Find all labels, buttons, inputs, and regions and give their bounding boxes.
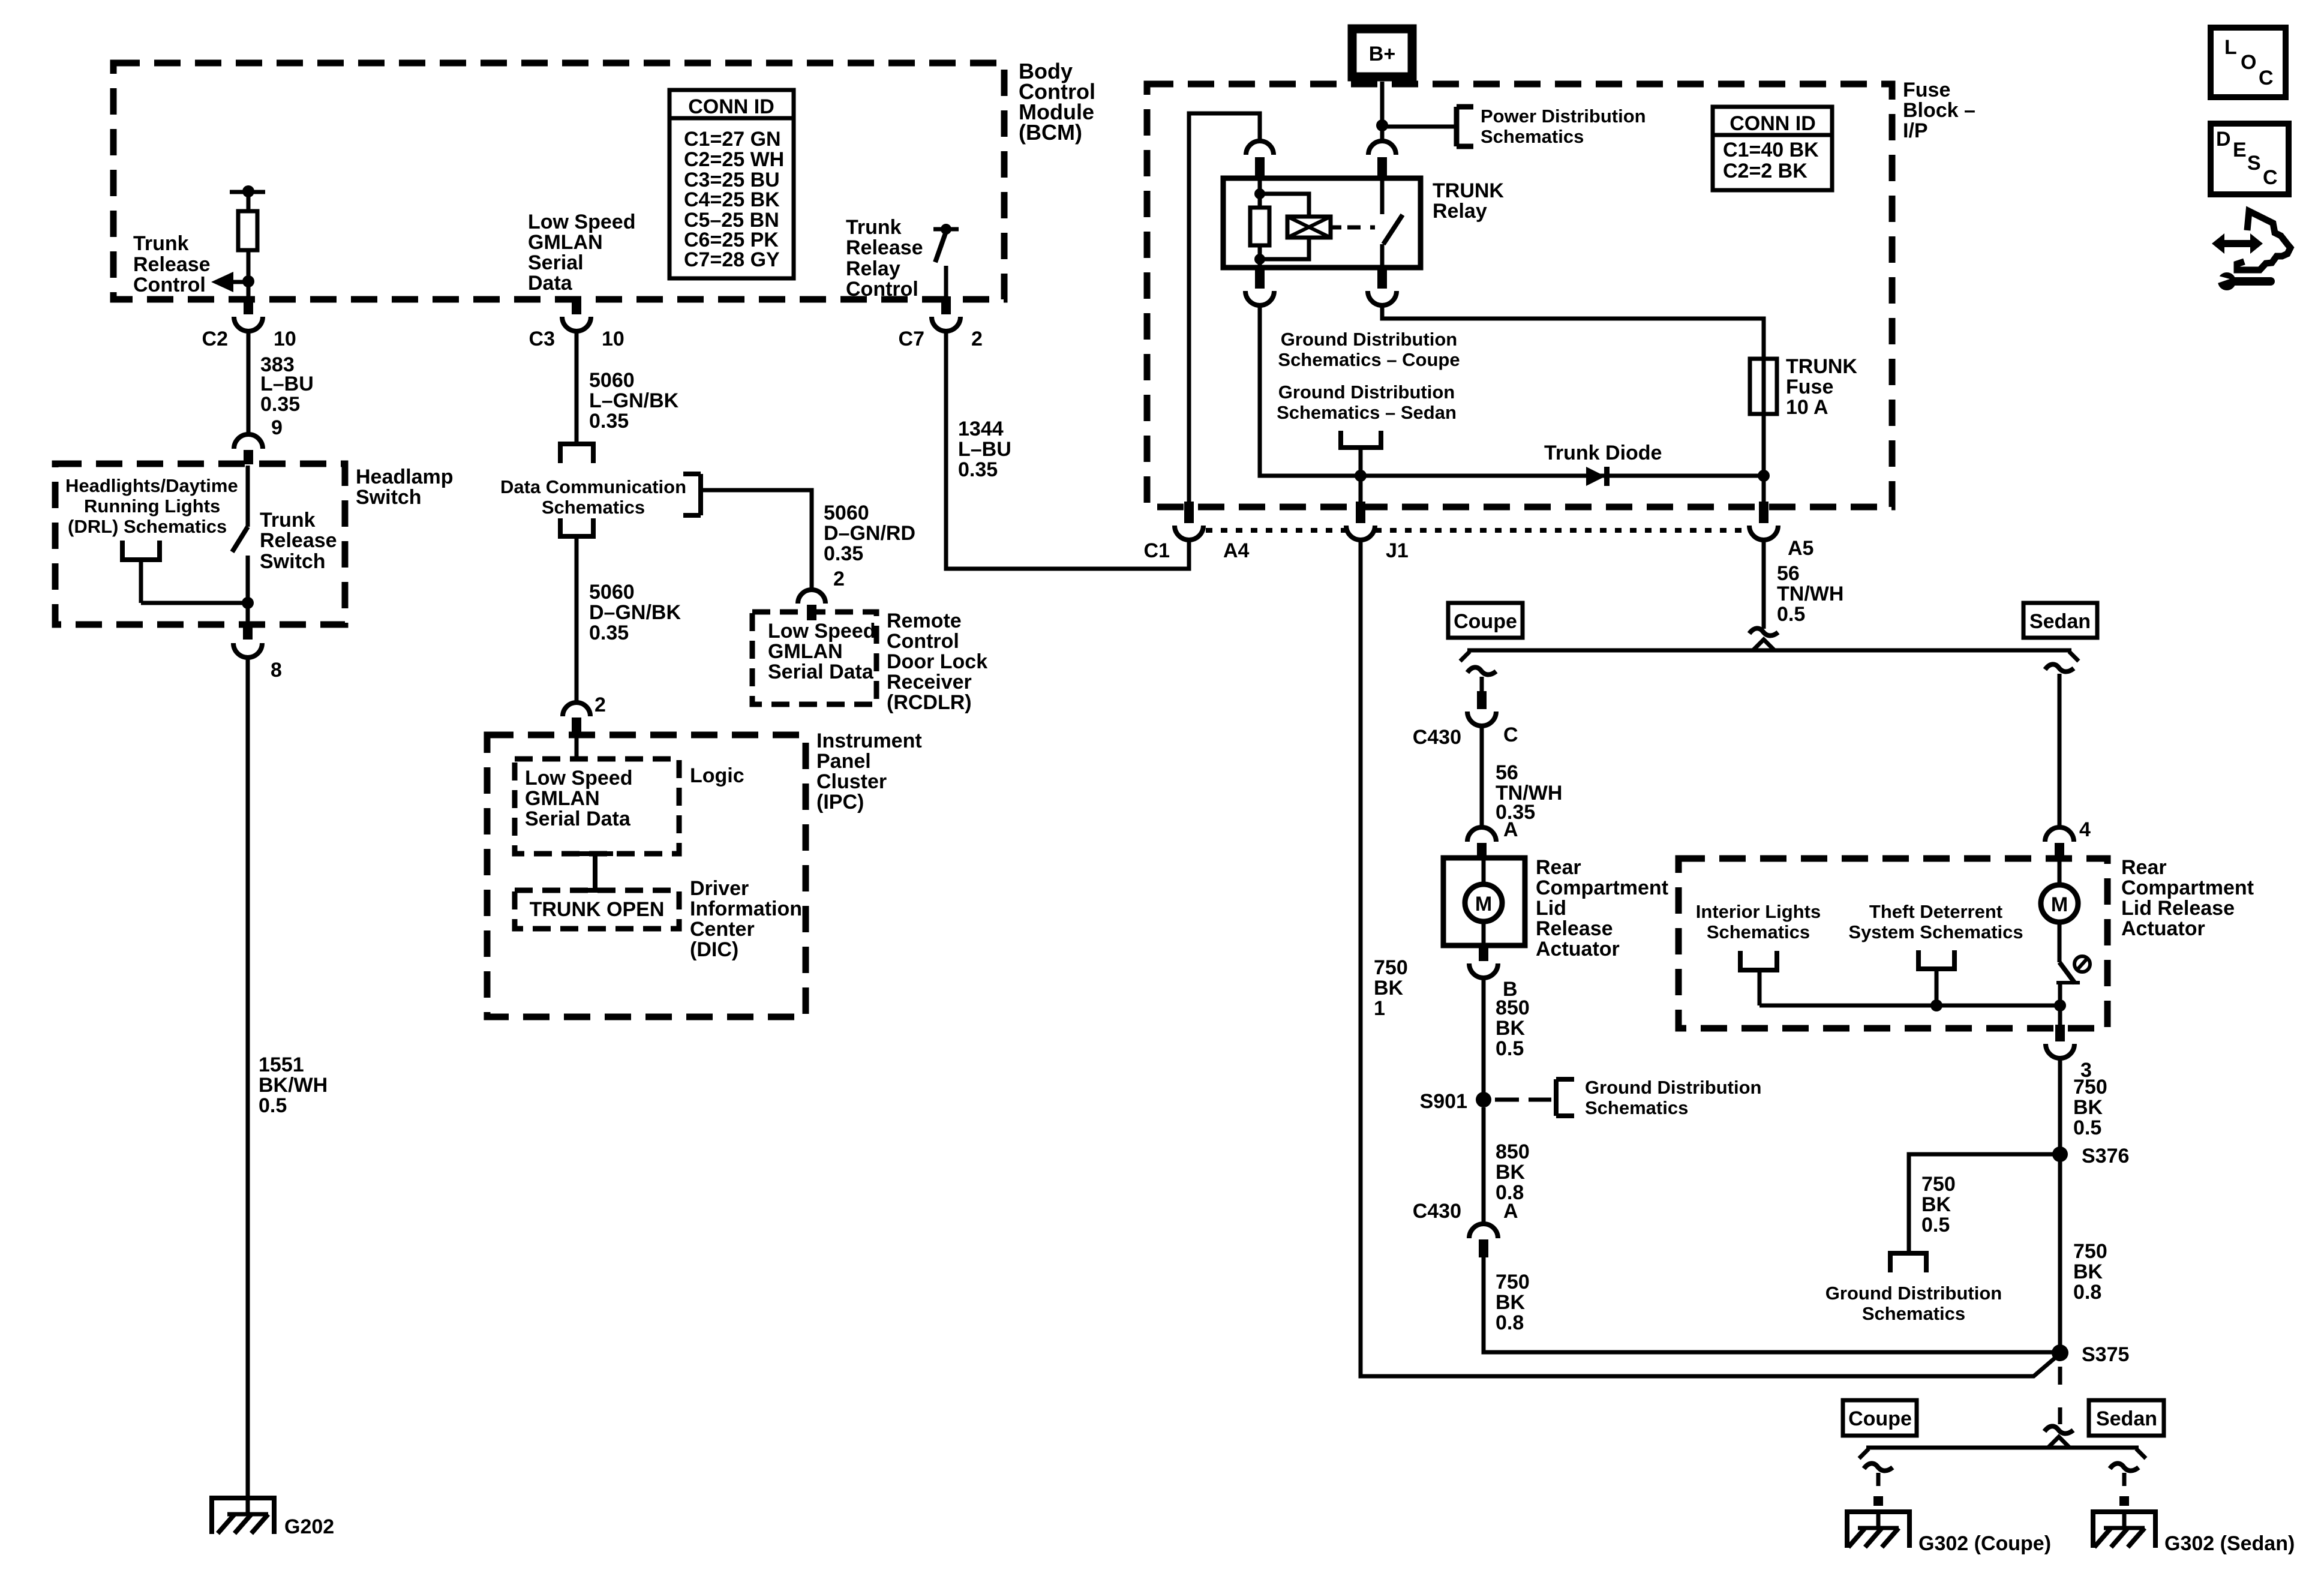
node: theft deterrent junction bbox=[1930, 999, 1942, 1011]
module box: Headlamp Switch dashed outline bbox=[55, 464, 345, 625]
value label: 850 BK 0.5 bbox=[1496, 996, 1530, 1060]
svg-text:C1=27 GN: C1=27 GN bbox=[684, 128, 781, 151]
wire: J1 ground wire down and across to S375 bbox=[1361, 540, 2055, 1376]
wire: coupe branch down to C430 pin C bbox=[1480, 677, 1484, 692]
node: coil bottom junction bbox=[1254, 254, 1265, 265]
connector line: fuse block C1 dotted boundary bbox=[1206, 528, 1749, 533]
label: Remote Control Door Lock Receiver (RCDLR) bbox=[887, 610, 987, 714]
svg-text:10: 10 bbox=[602, 328, 624, 350]
tag box: Sedan (bottom) bbox=[2089, 1400, 2164, 1436]
fuse: TRUNK Fuse 10 A bbox=[1750, 355, 1857, 419]
block: Logic dashed box bbox=[515, 759, 679, 854]
svg-text:A: A bbox=[1503, 1200, 1518, 1223]
svg-text:G202: G202 bbox=[284, 1515, 334, 1538]
node: B+ distribution junction bbox=[1376, 119, 1388, 131]
label: Driver Information Center (DIC) bbox=[690, 877, 802, 961]
motor: sedan lid release motor bbox=[2041, 858, 2078, 962]
svg-text:G302 (Coupe): G302 (Coupe) bbox=[1918, 1532, 2051, 1555]
svg-text:Data Communication: Data Communication bbox=[500, 476, 686, 497]
svg-text:850: 850 bbox=[1496, 996, 1530, 1019]
svg-text:Serial Data: Serial Data bbox=[525, 807, 631, 830]
svg-text:Door Lock: Door Lock bbox=[887, 650, 987, 673]
svg-text:BK: BK bbox=[1496, 1161, 1526, 1184]
label: Instrument Panel Cluster (IPC) bbox=[816, 730, 922, 813]
splice: S376 bbox=[2052, 1145, 2129, 1167]
break symbol: A5 wire interrupt bbox=[1749, 628, 1778, 635]
svg-text:Fuse: Fuse bbox=[1903, 79, 1950, 101]
svg-text:0.5: 0.5 bbox=[2073, 1116, 2101, 1139]
switch: sedan actuator position switch bbox=[2056, 956, 2090, 1005]
svg-text:Remote: Remote bbox=[887, 610, 962, 632]
wire: bottom coupe/sedan split rail bbox=[1859, 1437, 2146, 1458]
wire: relay coil ground side down to bus bbox=[1260, 305, 1761, 476]
wire: circuit 5060 from BCM C3-10 down bbox=[575, 331, 579, 443]
svg-text:A5: A5 bbox=[1788, 537, 1813, 560]
svg-text:Trunk Diode: Trunk Diode bbox=[1544, 442, 1662, 464]
module box: Instrument Panel Cluster dashed outline bbox=[487, 735, 806, 1017]
svg-text:BK: BK bbox=[1374, 977, 1404, 999]
svg-text:Sedan: Sedan bbox=[2096, 1407, 2157, 1430]
wire: parallel branch to relay coil bbox=[1260, 194, 1309, 217]
svg-text:L–BU: L–BU bbox=[260, 373, 314, 395]
svg-text:Low Speed: Low Speed bbox=[525, 767, 632, 789]
svg-text:Low Speed: Low Speed bbox=[528, 211, 635, 233]
label: Ground Distribution Schematics (S376 tap) bbox=[1825, 1283, 2002, 1324]
reference bracket: data communication schematics (right, to RCDLR) bbox=[683, 474, 701, 515]
connector: fuse block pin J1 bbox=[1346, 502, 1409, 562]
value label: 750 BK 0.5 (S376 tap) bbox=[1921, 1173, 1956, 1236]
label: Trunk Release Switch bbox=[260, 509, 337, 573]
tag box: Coupe (bottom) bbox=[1843, 1400, 1917, 1436]
reference bracket: interior lights schematics bbox=[1738, 951, 1779, 1005]
svg-text:S375: S375 bbox=[2082, 1343, 2129, 1366]
wire: junction down to A5 bbox=[1762, 476, 1766, 504]
value label: 750 BK 0.5 (sedan) bbox=[2073, 1076, 2107, 1139]
svg-text:8: 8 bbox=[271, 659, 282, 682]
svg-text:C: C bbox=[2259, 67, 2274, 89]
svg-text:Data: Data bbox=[528, 272, 573, 295]
tag box: Sedan (top) bbox=[2023, 603, 2097, 638]
svg-text:4: 4 bbox=[2079, 818, 2091, 841]
svg-text:Sedan: Sedan bbox=[2029, 610, 2091, 633]
resistor: trunk release control output driver bbox=[230, 185, 265, 281]
reference bracket: ground distribution schematics tap bbox=[1338, 431, 1383, 474]
coil: relay coil (boxed X) bbox=[1287, 217, 1341, 238]
table: CONN ID (BCM) bbox=[669, 90, 794, 278]
wire: relay switch output to TRUNK fuse bbox=[1382, 305, 1764, 359]
label: Low Speed GMLAN Serial Data (IPC logic) bbox=[525, 767, 632, 830]
svg-text:0.35: 0.35 bbox=[958, 458, 998, 481]
svg-text:Ground Distribution: Ground Distribution bbox=[1825, 1283, 2002, 1304]
break symbol: coupe branch interrupt bbox=[1467, 667, 1496, 674]
svg-text:Release: Release bbox=[846, 236, 923, 259]
node: switch output junction (sedan) bbox=[2054, 999, 2066, 1011]
svg-text:TRUNK: TRUNK bbox=[1786, 355, 1857, 378]
connector: IPC pin 2 bbox=[563, 703, 590, 737]
svg-text:2: 2 bbox=[594, 694, 606, 716]
wire: circuit 850 from pin B down to S901 bbox=[1482, 978, 1486, 1100]
connector: C430 pin C bbox=[1413, 691, 1518, 749]
module box: Fuse Block - I/P dashed outline bbox=[1147, 84, 1892, 507]
svg-text:0.35: 0.35 bbox=[589, 622, 629, 644]
wire: B+ feed down to relay node bbox=[1380, 82, 1385, 125]
label: Rear Compartment Lid Release Actuator (coupe) bbox=[1536, 856, 1668, 960]
svg-text:L–GN/BK: L–GN/BK bbox=[589, 389, 679, 412]
svg-text:C1=40 BK: C1=40 BK bbox=[1723, 139, 1819, 161]
svg-text:5060: 5060 bbox=[589, 581, 635, 604]
node: bus junction at J1 bbox=[1355, 470, 1367, 482]
wire: node down to relay pin 86 bbox=[1380, 127, 1385, 141]
svg-text:Control: Control bbox=[133, 274, 206, 296]
svg-text:750: 750 bbox=[2073, 1076, 2107, 1098]
svg-text:Low Speed: Low Speed bbox=[768, 620, 875, 643]
value label: 56 TN/WH 0.5 bbox=[1777, 562, 1843, 626]
label: Theft Deterrent System Schematics bbox=[1848, 901, 2023, 942]
connector: fuse block pin A4 bbox=[1144, 502, 1250, 562]
svg-text:Compartment: Compartment bbox=[2121, 876, 2254, 899]
svg-text:Actuator: Actuator bbox=[1536, 938, 1620, 960]
svg-text:C3: C3 bbox=[529, 328, 555, 350]
break symbol: sedan branch interrupt bbox=[2045, 664, 2074, 671]
svg-text:Switch: Switch bbox=[260, 550, 326, 573]
node: switch output junction bbox=[242, 597, 254, 609]
svg-text:G302 (Sedan): G302 (Sedan) bbox=[2164, 1532, 2295, 1555]
svg-text:I/P: I/P bbox=[1903, 119, 1928, 142]
svg-text:Schematics: Schematics bbox=[1707, 921, 1810, 942]
svg-text:Instrument: Instrument bbox=[816, 730, 922, 752]
svg-text:Relay: Relay bbox=[846, 257, 900, 280]
value label: 1551 BK/WH 0.5 bbox=[259, 1053, 328, 1117]
wire: circuit 750 from C430-A to S375 bbox=[1484, 1257, 2052, 1352]
svg-text:750: 750 bbox=[2073, 1240, 2107, 1263]
svg-text:10 A: 10 A bbox=[1786, 396, 1828, 419]
wire: coupe ground drop bbox=[1873, 1473, 1883, 1506]
svg-text:J1: J1 bbox=[1386, 539, 1409, 562]
label: Trunk Release Control bbox=[133, 232, 211, 296]
label: Headlamp Switch bbox=[356, 466, 454, 509]
connector: coupe actuator pin B bbox=[1469, 945, 1518, 1001]
svg-text:0.35: 0.35 bbox=[824, 542, 863, 565]
svg-text:C4=25 BK: C4=25 BK bbox=[684, 188, 780, 211]
svg-text:Release: Release bbox=[260, 529, 337, 552]
value label: 1344 L-BU 0.35 bbox=[958, 418, 1011, 481]
svg-text:C2=2 BK: C2=2 BK bbox=[1723, 160, 1807, 182]
wire: dashed ground wire below S375 bbox=[2058, 1367, 2062, 1424]
svg-text:S376: S376 bbox=[2082, 1145, 2129, 1167]
splice: S375 bbox=[2052, 1343, 2129, 1366]
value label: 850 BK 0.8 bbox=[1496, 1140, 1530, 1204]
svg-text:B+: B+ bbox=[1369, 43, 1395, 65]
svg-text:C: C bbox=[2263, 166, 2278, 189]
svg-text:D: D bbox=[2216, 128, 2231, 151]
reference bracket: data communication schematics (bottom) bbox=[558, 518, 596, 536]
svg-text:Schematics – Sedan: Schematics – Sedan bbox=[1277, 402, 1457, 423]
ground: G202 bbox=[209, 1498, 334, 1538]
wire: circuit 383 from BCM C2-10 down to headlamp switch pin 9 bbox=[247, 331, 251, 436]
label: Ground Distribution Schematics (S901) bbox=[1585, 1077, 1761, 1118]
svg-text:C7: C7 bbox=[899, 328, 924, 350]
connector: relay switch-side top pin bbox=[1368, 141, 1396, 179]
wire: circuit 56 from A5 down to split bbox=[1762, 540, 1766, 629]
svg-text:Logic: Logic bbox=[690, 764, 744, 787]
wire: pin 2 stub into logic block bbox=[575, 737, 579, 759]
label: Power Distribution Schematics bbox=[1481, 106, 1646, 147]
svg-text:Control: Control bbox=[846, 278, 918, 301]
svg-text:Power Distribution: Power Distribution bbox=[1481, 106, 1646, 127]
link: logic to TRUNK OPEN indicator bbox=[577, 854, 613, 890]
switch: trunk release relay control driver bbox=[933, 224, 959, 298]
svg-text:Ground Distribution: Ground Distribution bbox=[1278, 382, 1455, 403]
connector: headlamp switch pin 9 bbox=[234, 434, 263, 464]
svg-text:M: M bbox=[1475, 893, 1492, 915]
svg-text:System Schematics: System Schematics bbox=[1848, 921, 2023, 942]
value label: 5060 D-GN/BK 0.35 bbox=[589, 581, 681, 644]
connector: RCDLR pin 2 bbox=[798, 590, 825, 620]
label: Low Speed GMLAN Serial Data (BCM) bbox=[528, 211, 635, 295]
svg-text:Actuator: Actuator bbox=[2121, 917, 2205, 940]
wire: DRL tap to switch output node bbox=[141, 601, 248, 605]
svg-text:Switch: Switch bbox=[356, 486, 422, 509]
svg-text:CONN ID: CONN ID bbox=[1730, 112, 1816, 135]
legend icon: wrench bbox=[2214, 272, 2271, 290]
svg-text:2: 2 bbox=[833, 568, 845, 590]
svg-text:C2=25 WH: C2=25 WH bbox=[684, 148, 784, 171]
value label: 750 BK 0.8 (coupe) bbox=[1496, 1271, 1530, 1334]
legend box: DESC bbox=[2211, 124, 2289, 194]
actuator: Rear Compartment Lid Release Actuator (coupe) bbox=[1443, 858, 1525, 945]
connector: relay coil-side bottom pin bbox=[1245, 268, 1274, 305]
break symbol: sedan ground interrupt bbox=[2110, 1463, 2139, 1470]
svg-text:C430: C430 bbox=[1413, 1200, 1461, 1223]
module box: RCDLR dashed outline bbox=[752, 612, 876, 704]
label: Body Control Module (BCM) bbox=[1019, 59, 1095, 145]
wire: relay coil top pin up and over to A4 bbox=[1189, 113, 1260, 502]
svg-text:850: 850 bbox=[1496, 1140, 1530, 1163]
svg-text:Driver: Driver bbox=[690, 877, 749, 900]
svg-text:TN/WH: TN/WH bbox=[1777, 583, 1843, 605]
svg-text:Release: Release bbox=[1536, 917, 1613, 940]
svg-text:0.5: 0.5 bbox=[259, 1094, 287, 1117]
svg-text:BK: BK bbox=[2073, 1260, 2103, 1283]
svg-text:Ground Distribution: Ground Distribution bbox=[1281, 329, 1457, 350]
svg-text:56: 56 bbox=[1496, 761, 1518, 784]
svg-text:1344: 1344 bbox=[958, 418, 1004, 440]
svg-text:Schematics: Schematics bbox=[542, 497, 645, 518]
svg-text:D–GN/BK: D–GN/BK bbox=[589, 601, 681, 624]
wire: dashed tap from S901 to ground distribution bracket bbox=[1495, 1098, 1551, 1102]
svg-text:C7=28 GY: C7=28 GY bbox=[684, 248, 780, 271]
break symbol: ground wire interrupt bbox=[2044, 1426, 2073, 1433]
wire: circuit 1344 from BCM C7-2 to fuse block C1-A4 bbox=[946, 331, 1189, 569]
label: Low Speed GMLAN Serial Data (RCDLR) bbox=[768, 620, 875, 683]
svg-text:Serial Data: Serial Data bbox=[768, 661, 874, 683]
wire: actuator internal bus bbox=[1759, 1004, 2060, 1008]
svg-text:M: M bbox=[2051, 893, 2068, 916]
svg-text:0.5: 0.5 bbox=[1777, 603, 1805, 626]
wire: circuit 750 from S376 down to S375 bbox=[2058, 1154, 2062, 1345]
label: Ground Distribution Schematics - Coupe bbox=[1278, 329, 1460, 370]
svg-text:D–GN/RD: D–GN/RD bbox=[824, 522, 915, 545]
svg-text:CONN ID: CONN ID bbox=[688, 95, 774, 118]
svg-text:Lid: Lid bbox=[1536, 897, 1566, 920]
svg-text:Trunk: Trunk bbox=[846, 216, 902, 239]
svg-text:Theft Deterrent: Theft Deterrent bbox=[1869, 901, 2002, 922]
ground: G302 (Coupe) bbox=[1845, 1512, 2051, 1555]
svg-text:Control: Control bbox=[887, 630, 959, 653]
svg-text:1551: 1551 bbox=[259, 1053, 304, 1076]
svg-text:BK: BK bbox=[1921, 1193, 1951, 1216]
svg-text:Headlights/Daytime: Headlights/Daytime bbox=[65, 475, 238, 496]
reference bracket: DRL schematics tap bbox=[120, 541, 162, 603]
label: Ground Distribution Schematics - Sedan bbox=[1277, 382, 1457, 423]
svg-text:0.35: 0.35 bbox=[589, 410, 629, 433]
svg-text:Trunk: Trunk bbox=[133, 232, 189, 255]
svg-text:(DRL) Schematics: (DRL) Schematics bbox=[68, 516, 227, 537]
svg-text:750: 750 bbox=[1921, 1173, 1956, 1196]
wire: circuit 56 to actuator pin A bbox=[1480, 726, 1484, 828]
label: Trunk Release Relay Control bbox=[846, 216, 923, 301]
value label: 5060 D-GN/RD 0.35 bbox=[824, 502, 915, 565]
wire: circuit 850 from S901 to C430 pin A bbox=[1482, 1107, 1486, 1224]
svg-text:GMLAN: GMLAN bbox=[768, 640, 843, 663]
svg-text:9: 9 bbox=[271, 416, 283, 439]
svg-text:A: A bbox=[1503, 818, 1518, 841]
connector C7 pin 2 (BCM) bbox=[899, 296, 983, 350]
value label: 750 BK 1 (J1 wire) bbox=[1374, 956, 1408, 1020]
svg-text:Rear: Rear bbox=[2121, 856, 2167, 879]
svg-text:Fuse: Fuse bbox=[1786, 376, 1833, 398]
wire: relay coil branch left bbox=[1258, 178, 1262, 208]
reference bracket: power distribution schematics bbox=[1457, 107, 1473, 146]
svg-text:0.5: 0.5 bbox=[1496, 1037, 1524, 1060]
svg-text:0.8: 0.8 bbox=[2073, 1281, 2101, 1304]
svg-text:0.8: 0.8 bbox=[1496, 1311, 1524, 1334]
resistor: relay coil suppression resistor bbox=[1250, 208, 1269, 245]
svg-text:Coupe: Coupe bbox=[1848, 1407, 1912, 1430]
diode: Trunk Diode bbox=[1544, 442, 1662, 486]
svg-text:Interior Lights: Interior Lights bbox=[1696, 901, 1821, 922]
label: Rear Compartment Lid Release Actuator (sedan) bbox=[2121, 856, 2254, 940]
svg-text:56: 56 bbox=[1777, 562, 1800, 585]
power feed: B+ box bbox=[1352, 29, 1412, 77]
connector: sedan actuator pin 4 bbox=[2045, 827, 2074, 860]
connector C3 pin 10 (BCM) bbox=[529, 296, 624, 350]
switch: trunk release switch blade bbox=[232, 466, 248, 603]
wire: circuit 1551 from pin 8 down to G202 bbox=[246, 658, 250, 1514]
tag box: Coupe (top) bbox=[1448, 603, 1523, 638]
svg-text:Receiver: Receiver bbox=[887, 671, 972, 694]
connector: headlamp switch pin 8 bbox=[233, 622, 282, 682]
label: Headlights/Daytime Running Lights (DRL) Schematics bbox=[65, 475, 238, 537]
label: Interior Lights Schematics bbox=[1696, 901, 1821, 942]
svg-text:0.5: 0.5 bbox=[1921, 1214, 1950, 1236]
svg-text:Ground Distribution: Ground Distribution bbox=[1585, 1077, 1761, 1098]
wire: circuit 5060 D-GN/RD to RCDLR pin 2 bbox=[701, 490, 812, 589]
link: relay mechanical dashed link bbox=[1347, 226, 1375, 230]
svg-text:GMLAN: GMLAN bbox=[525, 787, 600, 810]
svg-text:Information: Information bbox=[690, 897, 802, 920]
svg-text:Serial: Serial bbox=[528, 251, 584, 274]
label: TRUNK Relay bbox=[1433, 179, 1504, 223]
svg-text:A4: A4 bbox=[1223, 539, 1250, 562]
wire: resistor bottom to coil bottom junction bbox=[1258, 245, 1262, 268]
svg-text:L–BU: L–BU bbox=[958, 438, 1011, 461]
svg-text:(RCDLR): (RCDLR) bbox=[887, 691, 972, 714]
svg-text:Release: Release bbox=[133, 253, 211, 276]
svg-text:Schematics: Schematics bbox=[1862, 1303, 1965, 1324]
svg-text:750: 750 bbox=[1374, 956, 1408, 979]
svg-text:S901: S901 bbox=[1420, 1090, 1467, 1113]
svg-text:Headlamp: Headlamp bbox=[356, 466, 454, 488]
svg-text:GMLAN: GMLAN bbox=[528, 231, 603, 254]
svg-text:E: E bbox=[2233, 139, 2247, 161]
svg-text:BK/WH: BK/WH bbox=[259, 1074, 328, 1097]
wire: S376 tap to ground distribution bracket bbox=[1909, 1154, 2060, 1253]
svg-text:Center: Center bbox=[690, 918, 755, 941]
node: fuse output junction bbox=[1758, 470, 1770, 482]
svg-text:Rear: Rear bbox=[1536, 856, 1581, 879]
svg-text:Relay: Relay bbox=[1433, 200, 1487, 223]
break symbol: coupe ground interrupt bbox=[1864, 1463, 1893, 1470]
svg-text:TRUNK: TRUNK bbox=[1433, 179, 1504, 202]
wire: junction to power distribution bracket bbox=[1382, 125, 1457, 129]
legend box: LOC bbox=[2211, 28, 2286, 97]
ground: G302 (Sedan) bbox=[2091, 1512, 2295, 1555]
value label: 383 L-BU 0.35 bbox=[260, 353, 314, 416]
module box: sedan actuator dashed outline bbox=[1679, 858, 2107, 1028]
svg-text:C: C bbox=[1503, 724, 1518, 746]
svg-text:0.35: 0.35 bbox=[260, 393, 300, 416]
label: Fuse Block - I/P bbox=[1903, 79, 1975, 142]
reference bracket: ground distribution schematics (S901) bbox=[1556, 1079, 1574, 1116]
svg-text:L: L bbox=[2224, 36, 2237, 59]
svg-text:1: 1 bbox=[1374, 997, 1385, 1020]
svg-text:Schematics: Schematics bbox=[1481, 126, 1584, 147]
wire: junction down to pin 8 bbox=[246, 603, 250, 625]
svg-text:O: O bbox=[2241, 51, 2256, 74]
svg-text:Running Lights: Running Lights bbox=[84, 496, 220, 517]
wire: fuse output down to bus bbox=[1762, 414, 1766, 476]
connector: C430 pin A bbox=[1413, 1200, 1518, 1257]
svg-text:C430: C430 bbox=[1413, 726, 1461, 749]
svg-text:C1: C1 bbox=[1144, 539, 1170, 562]
svg-text:Trunk: Trunk bbox=[260, 509, 316, 532]
svg-text:Compartment: Compartment bbox=[1536, 876, 1668, 899]
relay: TRUNK Relay box bbox=[1223, 178, 1421, 268]
svg-text:Cluster: Cluster bbox=[816, 770, 887, 793]
svg-text:TRUNK OPEN: TRUNK OPEN bbox=[530, 898, 665, 921]
connector: coupe actuator pin A bbox=[1467, 827, 1496, 859]
connector: relay coil-side top pin bbox=[1246, 141, 1274, 179]
switch: relay contact bbox=[1382, 178, 1403, 268]
svg-text:S: S bbox=[2247, 152, 2261, 175]
reference bracket: data communication schematics (top) bbox=[558, 444, 596, 463]
module box: Body Control Module (BCM) dashed outline bbox=[113, 63, 1004, 299]
connector: relay switch-side bottom pin bbox=[1368, 268, 1397, 305]
value label: 5060 L-GN/BK 0.35 bbox=[589, 369, 679, 433]
wire: junction down to J1 bbox=[1359, 476, 1363, 504]
svg-text:Schematics – Coupe: Schematics – Coupe bbox=[1278, 349, 1460, 370]
connector: sedan actuator pin 3 bbox=[2046, 1005, 2092, 1082]
svg-text:5060: 5060 bbox=[589, 369, 635, 392]
svg-text:Block –: Block – bbox=[1903, 99, 1975, 122]
svg-text:(BCM): (BCM) bbox=[1019, 120, 1082, 145]
svg-text:Coupe: Coupe bbox=[1454, 610, 1517, 633]
table: CONN ID (fuse block) bbox=[1713, 107, 1832, 190]
splice: S901 bbox=[1420, 1090, 1491, 1113]
node: coil top junction bbox=[1254, 188, 1265, 199]
wire: sedan branch down to actuator pin 4 bbox=[2058, 674, 2062, 827]
